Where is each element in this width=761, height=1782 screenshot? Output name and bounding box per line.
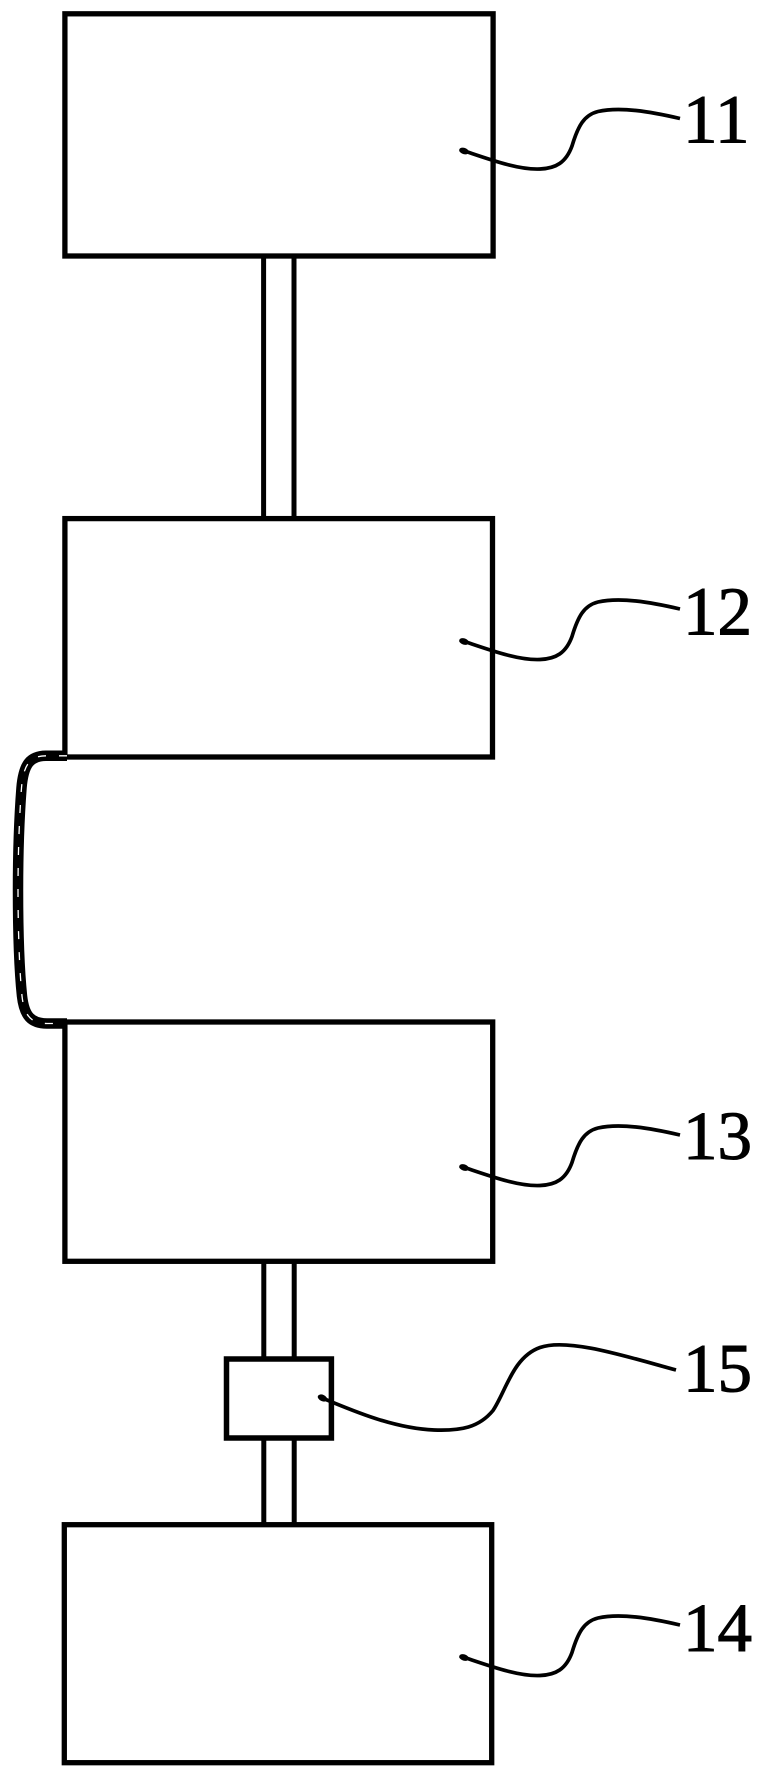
block 14 (bottom rectangle) — [64, 1525, 491, 1763]
block 12 (second rectangle) — [65, 519, 493, 757]
svg-text:13: 13 — [683, 1098, 752, 1174]
wire shaft between coupling 15 and block 14, left line — [261, 1438, 266, 1525]
block 13 (third rectangle) — [65, 1022, 493, 1261]
leader line for label 12 — [463, 600, 680, 660]
wire shaft between block 13 and coupling 15, right line — [292, 1261, 297, 1359]
svg-text:12: 12 — [683, 574, 752, 650]
wire shaft between coupling 15 and block 14, right line — [292, 1438, 297, 1525]
leader start dot 14 — [458, 1653, 469, 1662]
belt connector between block 12 and block 13 (left curved band) — [18, 756, 67, 1024]
wire shaft between block 13 and coupling 15, left line — [261, 1261, 266, 1359]
leader line for label 14 — [463, 1616, 680, 1676]
leader start dot 15 — [317, 1393, 329, 1403]
leader start dot 13 — [458, 1163, 469, 1172]
leader start dot 12 — [458, 637, 469, 646]
block 11 (top rectangle) — [65, 14, 493, 256]
wire shaft between block 11 and block 12, right line — [292, 256, 297, 519]
leader start dot 11 — [458, 146, 469, 155]
svg-text:15: 15 — [683, 1331, 752, 1407]
coupling 15 (small box) — [227, 1359, 332, 1438]
leader line for label 15 — [321, 1345, 676, 1430]
leader line for label 13 — [463, 1126, 680, 1186]
svg-text:11: 11 — [683, 82, 749, 158]
leader line for label 11 — [463, 109, 680, 169]
svg-text:14: 14 — [683, 1590, 752, 1666]
belt connector inner white dashed split — [18, 756, 67, 1024]
wire shaft between block 11 and block 12, left line — [261, 256, 266, 519]
